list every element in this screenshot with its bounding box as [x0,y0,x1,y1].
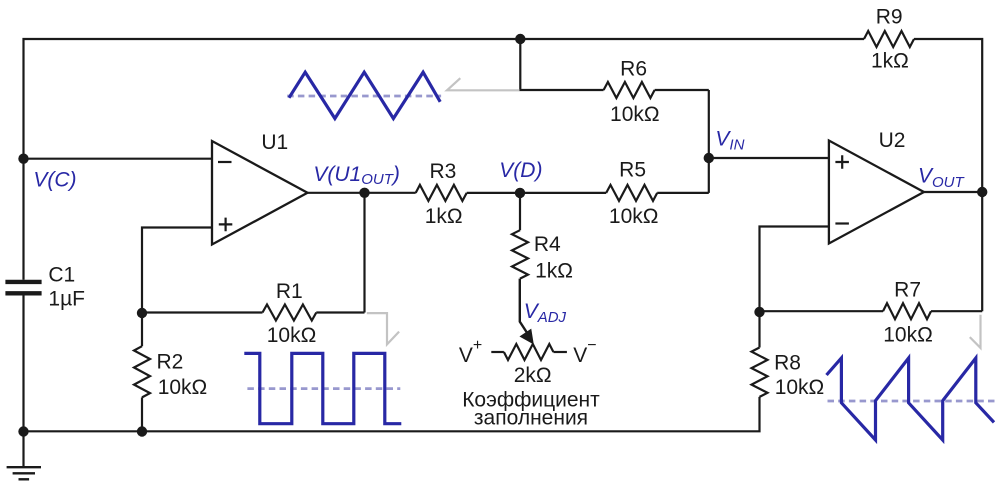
svg-text:10kΩ: 10kΩ [267,324,317,347]
svg-text:заполнения: заполнения [474,406,588,429]
svg-text:10kΩ: 10kΩ [883,324,933,347]
svg-text:2kΩ: 2kΩ [514,364,552,387]
svg-text:R4: R4 [534,233,561,256]
svg-text:U1: U1 [261,131,288,154]
svg-text:R1: R1 [276,280,303,303]
svg-text:10kΩ: 10kΩ [609,205,659,228]
svg-text:R8: R8 [774,351,801,374]
svg-text:U2: U2 [879,129,906,152]
svg-text:V(D): V(D) [499,159,542,182]
svg-text:C1: C1 [48,263,75,286]
svg-text:R3: R3 [429,160,456,183]
svg-text:R6: R6 [620,58,647,81]
svg-text:10kΩ: 10kΩ [775,376,825,399]
svg-text:1kΩ: 1kΩ [425,205,463,228]
svg-text:R7: R7 [894,279,921,302]
svg-text:R5: R5 [619,159,646,182]
svg-text:10kΩ: 10kΩ [610,103,660,126]
svg-text:R2: R2 [157,350,184,373]
svg-text:1µF: 1µF [48,287,85,310]
svg-text:1kΩ: 1kΩ [871,49,909,72]
svg-text:R9: R9 [876,6,903,29]
svg-text:V(C): V(C) [33,169,76,192]
svg-text:10kΩ: 10kΩ [158,376,208,399]
svg-text:1kΩ: 1kΩ [535,259,573,282]
